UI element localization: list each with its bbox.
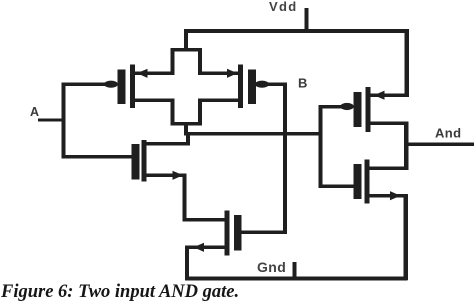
transistor M2 channel plate xyxy=(238,65,243,109)
transistor M6 source arrow xyxy=(390,191,401,200)
wire M2 gate lead xyxy=(268,83,285,87)
wire M3 drain riser to output node xyxy=(186,132,190,144)
transistor M5 source arrow xyxy=(374,91,385,100)
wire Vdd stub xyxy=(305,8,309,32)
wire M4 source drop to ground rail xyxy=(185,246,189,281)
wire ground rail xyxy=(185,277,408,281)
transistor M5 drain stub xyxy=(371,122,408,126)
transistor M1 drain stub xyxy=(133,99,173,103)
transistor M2 source arrow xyxy=(227,69,238,78)
transistor M1 channel plate xyxy=(130,65,135,109)
transistor M3 channel plate xyxy=(142,140,147,182)
wire NAND output node horizontal xyxy=(184,132,321,136)
wire left rail drop to PMOS sources xyxy=(184,29,188,51)
transistor M3 NMOS input A: gate lead xyxy=(63,155,132,159)
wire inverter input vertical xyxy=(319,106,323,188)
transistor M4 channel plate xyxy=(225,211,230,256)
transistor M3 drain stub xyxy=(146,142,190,146)
svg-text:Gnd: Gnd xyxy=(257,259,286,275)
transistor M2 drain stub xyxy=(200,99,239,103)
svg-text:A: A xyxy=(30,105,39,119)
transistor M5 channel plate xyxy=(366,87,371,132)
transistor M3 source stub xyxy=(146,174,186,178)
svg-text:Vdd: Vdd xyxy=(269,0,297,14)
wire source bump top horizontal xyxy=(171,48,203,52)
svg-text:Figure 6: Two input AND gate.: Figure 6: Two input AND gate. xyxy=(0,282,239,302)
transistor M6 source stub xyxy=(370,194,408,198)
wire M1 gate lead xyxy=(63,83,105,87)
transistor M2 PMOS input B: source stub xyxy=(200,72,239,76)
wire drain bump left vertical xyxy=(171,99,175,126)
wire input A vertical xyxy=(62,83,66,159)
wire source bump right vertical xyxy=(198,48,202,75)
wire inverter input to M6 gate xyxy=(319,185,355,189)
transistor M2 gate bubble xyxy=(255,81,269,88)
wire input B vertical xyxy=(283,83,287,235)
wire M6 source drop to ground rail xyxy=(404,194,409,280)
wire drain bump drop to output xyxy=(184,122,188,135)
transistor M6 NMOS inverter: drain stub xyxy=(370,167,408,171)
wire input A lead xyxy=(38,119,64,122)
svg-text:And: And xyxy=(435,126,461,141)
wire M3 source to M4 drain vertical xyxy=(183,174,187,222)
transistor M1 gate bubble xyxy=(104,81,118,88)
wire source bump left vertical xyxy=(171,48,175,75)
transistor M6 gate bar xyxy=(354,164,362,199)
wire And node vertical xyxy=(404,122,409,171)
wire inverter input to M5 bubble xyxy=(319,105,342,109)
transistor M5 gate bubble xyxy=(340,103,354,110)
wire right rail drop to inverter PMOS source xyxy=(405,29,410,97)
transistor M3 gate bar xyxy=(132,144,140,180)
wire drain bump bottom horizontal xyxy=(171,122,203,126)
transistor M1 source arrow xyxy=(137,69,148,78)
svg-text:B: B xyxy=(298,76,307,91)
transistor M4 gate bar xyxy=(234,215,242,251)
transistor M5 source stub xyxy=(371,94,408,98)
transistor M1 gate bar xyxy=(118,70,126,105)
transistor M2 gate bar xyxy=(248,70,256,105)
wire drain bump right vertical xyxy=(198,99,202,126)
transistor M4 source stub xyxy=(186,246,225,250)
transistor M4 NMOS input B: drain stub xyxy=(186,218,225,222)
wire Gnd stub xyxy=(293,262,297,278)
wire M4 gate lead xyxy=(241,231,287,235)
transistor M6 channel plate xyxy=(365,160,370,204)
wire And output lead xyxy=(406,143,474,147)
transistor M3 source arrow xyxy=(173,171,184,180)
transistor M5 PMOS inverter: gate bar xyxy=(354,92,362,127)
wire Vdd top rail xyxy=(184,29,409,33)
transistor M1 PMOS input A: source stub xyxy=(133,72,173,76)
transistor M4 source arrow xyxy=(194,243,205,252)
